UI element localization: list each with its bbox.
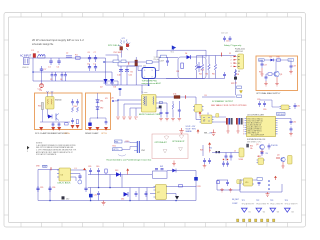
svg-text:U4 CONTROLLER: U4 CONTROLLER — [247, 114, 264, 116]
ground packs 2 (red) — [236, 125, 239, 134]
transistor Q2 — [56, 114, 59, 121]
wire earth stub — [41, 74, 43, 84]
resistor R36 dark body — [234, 77, 237, 80]
svg-text:D14: D14 — [121, 199, 124, 201]
diode D3 bridge — [110, 79, 114, 83]
component column K1 — [226, 118, 233, 125]
capacitor CX1 — [49, 58, 52, 65]
diode D15 — [172, 169, 176, 173]
svg-text:OPTO: OPTO — [113, 149, 119, 151]
test point TP3 — [270, 200, 283, 206]
capacitor C10 bulk — [119, 66, 123, 85]
node label left port — [259, 59, 265, 61]
capacitor C49 — [226, 180, 229, 186]
pin stubs left — [245, 119, 278, 134]
capacitor C16 — [223, 72, 226, 79]
capacitor C23 — [71, 99, 74, 106]
svg-text:OPTION A KIT: OPTION A KIT — [155, 141, 168, 144]
svg-text:TP14 C TEST PT: TP14 C TEST PT — [270, 204, 283, 206]
resistor R5 — [208, 64, 210, 70]
svg-text:C35: C35 — [40, 187, 43, 189]
resistor R15 — [72, 107, 74, 112]
capacitor C43 — [135, 191, 138, 197]
svg-text:SPI BUS: SPI BUS — [277, 114, 285, 116]
resistor R4 — [201, 64, 203, 70]
node junction dot — [103, 61, 104, 62]
ground bias 4 (red) — [260, 68, 263, 76]
svg-text:MCU-20PIN SSOP: MCU-20PIN SSOP — [251, 135, 264, 137]
svg-text:D12: D12 — [66, 199, 69, 201]
node label red flag L3 — [83, 168, 86, 170]
wire clamp net — [40, 121, 70, 123]
ground aux1 (red) — [116, 117, 120, 119]
svg-text:TP2: TP2 — [256, 200, 259, 202]
wire rail 12V — [88, 174, 152, 176]
svg-text:RV1 300V: RV1 300V — [114, 52, 123, 54]
resistor R8 — [234, 70, 236, 76]
node label red flag VSB — [208, 142, 211, 152]
probe flag 2 — [256, 208, 265, 213]
capacitor C22 — [58, 122, 61, 127]
node label blue flag — [43, 165, 48, 168]
svg-text:C7: C7 — [94, 52, 96, 54]
wire bias rail — [264, 59, 288, 61]
wire sense loop — [153, 171, 168, 178]
svg-text:U8: U8 — [257, 156, 259, 158]
capacitor CX2 — [57, 58, 60, 65]
capacitor C18 — [265, 74, 268, 81]
ground sec4 (red) — [178, 119, 182, 121]
capacitor C47 — [208, 158, 211, 164]
transistor Q3 below — [260, 145, 265, 150]
svg-text:C15: C15 — [226, 40, 229, 42]
wire mid node — [127, 65, 135, 67]
resistor R17 — [76, 120, 78, 124]
svg-text:Q1: Q1 — [280, 74, 282, 76]
wire up branch — [167, 171, 196, 178]
ground sec1 (red) — [159, 119, 163, 121]
node label blue rows — [186, 126, 197, 133]
ground left of caps (red) — [172, 161, 176, 167]
node junction dots bottom bus — [49, 187, 176, 201]
loop wires — [240, 180, 282, 192]
capacitor C7 — [94, 55, 97, 62]
svg-text:R2: R2 — [131, 72, 133, 74]
ground big (red) — [211, 130, 215, 136]
svg-text:TP3: TP3 — [270, 200, 273, 202]
test point TP2 — [256, 200, 269, 206]
capacitor C21 — [52, 122, 55, 127]
node label box mid — [257, 178, 262, 181]
svg-text:OPT A: OPT A — [64, 132, 70, 135]
capacitor C4b — [64, 72, 67, 81]
resistor R16 — [77, 107, 79, 112]
ground row 2 (red flags) — [88, 127, 108, 131]
resistor R27 yellow — [237, 180, 241, 184]
svg-text:C6: C6 — [88, 52, 90, 54]
svg-text:20 W universal input supply E: 20 W universal input supply EP-xx rev 1.… — [32, 38, 84, 42]
svg-text:1k: 1k — [209, 150, 211, 152]
node label VAUX blue flag — [119, 88, 122, 96]
capacitor C33 right — [290, 127, 293, 133]
node junction red tick — [185, 95, 187, 99]
svg-text:3: 3 — [231, 63, 232, 65]
ghost flag 2 — [179, 148, 183, 152]
node junction red tick — [128, 62, 130, 65]
ground earth PE (red) — [39, 84, 43, 88]
diode D16 on loop top — [187, 55, 191, 59]
capacitor CY1 — [40, 66, 43, 74]
wire IC to caps — [278, 118, 292, 121]
op-amp U1 switcher IC (blue rounded square) — [142, 68, 156, 79]
svg-text:G1: G1 — [248, 212, 250, 214]
svg-text:LINE IN: LINE IN — [22, 67, 29, 69]
svg-text:R16: R16 — [74, 106, 77, 108]
wire U3 to resistor packs — [214, 116, 227, 118]
wire DC+ to bulk caps — [112, 55, 142, 66]
svg-text:D9: D9 — [205, 95, 207, 97]
wire snubber loop (rounded) — [178, 57, 206, 79]
capacitor C14 — [223, 36, 226, 42]
diode D2 bridge — [104, 79, 108, 83]
probe flag 1 — [242, 208, 251, 213]
node label red dots — [223, 159, 228, 160]
capacitor C40 — [97, 168, 100, 175]
wire step to bus — [85, 170, 87, 186]
resistor R25 — [179, 185, 183, 187]
value label grey top right — [154, 57, 160, 61]
capacitor C38 — [84, 186, 87, 192]
node junction red tick — [221, 53, 223, 57]
wire U3 up feed — [207, 113, 209, 115]
ground below (red) — [260, 150, 264, 155]
ground sec5 big (red) — [179, 128, 183, 133]
clamp box 1 — [35, 93, 83, 130]
wire fb — [122, 147, 134, 150]
svg-text:5V STANDBY OUTPUT: 5V STANDBY OUTPUT — [212, 100, 234, 103]
node label red flag — [199, 111, 202, 116]
resistor R14 — [65, 123, 69, 125]
capacitor C32 right — [290, 119, 293, 125]
ground bias 2 (red) — [275, 77, 279, 86]
ground right IC (red) — [289, 133, 293, 137]
node label red pair — [250, 146, 253, 150]
svg-text:C21 C22: C21 C22 — [221, 33, 228, 35]
svg-text:PGOOD: PGOOD — [271, 145, 278, 147]
resistor R34 dark body — [246, 144, 249, 148]
wire DC bus bottom — [106, 81, 119, 85]
vertical links — [90, 175, 92, 188]
wire aux windings left — [118, 99, 142, 101]
node label box a — [237, 86, 242, 89]
ground lower loop 2 (red) — [229, 188, 233, 192]
svg-text:GND1 COMP EN D6: GND1 COMP EN D6 — [247, 130, 261, 132]
svg-text:FB_NET: FB_NET — [232, 199, 240, 201]
capacitor C28 — [166, 110, 169, 118]
pin arrows (red) — [234, 56, 238, 67]
capacitor C4 — [61, 72, 64, 81]
svg-text:SW: SW — [160, 166, 163, 168]
ground bias 3 (red) — [289, 70, 293, 74]
diode D10 — [88, 123, 91, 126]
capacitor C19 — [290, 61, 293, 70]
svg-text:G4: G4 — [291, 212, 293, 214]
svg-text:VDD2 OSC2 REF1 D1: VDD2 OSC2 REF1 D1 — [247, 120, 263, 122]
ground Q4 (red) — [281, 162, 284, 168]
svg-text:VR1: VR1 — [100, 101, 104, 103]
svg-text:TP1: TP1 — [242, 200, 245, 202]
svg-text:CN2: CN2 — [141, 150, 145, 152]
svg-text:J2: J2 — [234, 150, 236, 152]
resistor R1 — [76, 57, 81, 60]
svg-text:FB1: FB1 — [115, 141, 118, 143]
ground mid caps (red) — [203, 164, 207, 168]
ground sec3 (red) — [171, 119, 175, 121]
resistor R33 dark body — [218, 151, 220, 153]
node label small blue box — [159, 102, 162, 104]
diode D8 zener — [96, 100, 99, 103]
resistor R19 yellow body — [281, 105, 289, 110]
transistor Q1 — [274, 71, 279, 76]
transistor Q4 — [281, 157, 285, 161]
svg-text:C4: C4 — [60, 79, 62, 81]
node label box above U1 — [146, 61, 152, 64]
wire into U3 — [196, 112, 200, 120]
resistor R6 — [214, 64, 216, 70]
svg-text:L3: L3 — [75, 168, 77, 170]
IC U6 buck body — [59, 168, 71, 181]
svg-text:FOR LAYOUT GUIDANCE.: FOR LAYOUT GUIDANCE. — [36, 153, 57, 156]
IC U9 yellow vertical — [288, 156, 292, 165]
IC U2 small regulator — [195, 105, 203, 113]
svg-text:LNK-TL BUCK: LNK-TL BUCK — [58, 183, 72, 185]
svg-text:R12: R12 — [259, 72, 262, 74]
loop right — [168, 187, 196, 201]
capacitor C6 — [88, 55, 91, 62]
inductor L2 common-mode choke — [66, 56, 72, 58]
svg-text:Q4: Q4 — [277, 154, 279, 156]
arc wire — [118, 155, 126, 157]
node label box (blue) — [161, 55, 167, 58]
IC U4 body — [247, 117, 276, 137]
wire center — [97, 93, 99, 118]
svg-text:C30: C30 — [263, 109, 266, 111]
component column K2 — [236, 118, 243, 125]
wire secondary out mid — [156, 103, 167, 110]
svg-text:Q3: Q3 — [256, 144, 258, 146]
node label box TP2 — [121, 60, 126, 63]
ground sec2 (red) — [165, 119, 169, 121]
capacitor C58 above U8 — [261, 151, 264, 156]
svg-text:SEE SHEET 2 OF 2: SEE SHEET 2 OF 2 — [247, 141, 261, 143]
wire bottom bus — [38, 200, 196, 202]
svg-text:D4: D4 — [185, 53, 187, 55]
svg-text:D6: D6 — [270, 57, 272, 59]
diode D6 — [271, 59, 274, 62]
wire connector feed — [224, 56, 226, 73]
wire N rail — [33, 58, 118, 81]
wire stub — [275, 180, 277, 192]
capacitor C24 — [76, 99, 79, 106]
wire IC out — [73, 169, 87, 171]
ground lower loop 1 (red) — [220, 188, 224, 192]
wire L rail — [29, 57, 104, 59]
svg-text:AC INPUT: AC INPUT — [20, 55, 32, 58]
svg-text:R10: R10 — [277, 57, 280, 59]
opto U5 connector bars — [137, 141, 139, 153]
IC U7 body — [156, 185, 167, 200]
connector J2 body — [239, 148, 244, 157]
diode D13 — [116, 172, 121, 177]
capacitor C48 blue box — [217, 181, 220, 184]
svg-text:Recommended to use PI-2000 des: Recommended to use PI-2000 design in low… — [107, 159, 152, 162]
capacitor C36 — [48, 186, 51, 192]
spark rays — [119, 39, 131, 50]
wire feeds — [147, 189, 154, 191]
ground aux3 (red) — [128, 117, 132, 119]
svg-text:SB2040: SB2040 — [55, 100, 61, 102]
wire primary in — [141, 85, 143, 94]
capacitor C35 — [36, 186, 39, 192]
svg-text:C36: C36 — [52, 187, 55, 189]
ground bias 1 (red) — [264, 81, 268, 86]
IC U10 shunt ref yellow — [244, 178, 253, 186]
svg-text:C41: C41 — [94, 195, 97, 197]
svg-text:SUPERVISOR BLOCK: SUPERVISOR BLOCK — [247, 139, 266, 141]
wire bridge arms — [104, 58, 106, 85]
ground feedback (red) — [266, 192, 270, 196]
capacitor C53 mark — [155, 169, 158, 170]
ground packs 1 (red) — [226, 125, 229, 134]
bias box — [256, 56, 298, 91]
wire mid rail — [33, 71, 104, 73]
capacitor C46 — [203, 158, 206, 164]
capacitor C54 mark — [161, 169, 164, 170]
svg-text:1: 1 — [231, 56, 232, 58]
wire center drop — [275, 61, 277, 71]
connector J0 body — [24, 58, 30, 65]
resistor R37 — [195, 64, 197, 70]
wire feedback column — [202, 145, 204, 156]
wire source — [156, 57, 160, 70]
svg-text:TP12 A TEST PT: TP12 A TEST PT — [242, 203, 255, 206]
ground aux4 (red) — [134, 117, 138, 119]
fuse F2 (red) — [126, 44, 129, 47]
value label block (dark) — [235, 49, 245, 53]
node label blue tiny rows — [232, 199, 240, 205]
wire bank bottom rail — [166, 78, 225, 80]
node label red flag top — [197, 129, 200, 133]
IC U3 shunt regulator — [201, 115, 212, 124]
capacitor C11 bulk — [125, 66, 129, 85]
capacitor C41 blue body — [89, 194, 93, 198]
node junction — [97, 118, 98, 119]
option box (light red) — [152, 134, 188, 159]
wire input rail — [38, 169, 59, 171]
capacitor C34 below — [268, 144, 271, 150]
wire varistor stub — [120, 50, 122, 57]
svg-text:2.2R: 2.2R — [197, 186, 202, 188]
svg-text:C19: C19 — [293, 66, 296, 68]
svg-text:G3: G3 — [277, 212, 279, 214]
capacitor C17 — [261, 60, 264, 68]
capacitor C52 — [230, 153, 233, 161]
svg-text:U10: U10 — [245, 182, 248, 184]
wire secondary out top — [156, 97, 196, 105]
IC U8 yellow — [258, 158, 264, 165]
capacitor C50 — [258, 180, 261, 186]
svg-text:C32: C32 — [293, 122, 296, 124]
svg-text:C39: C39 — [88, 166, 91, 168]
node label red flag — [274, 176, 277, 180]
pin name smudge — [247, 117, 264, 136]
resistor R10 — [277, 59, 281, 61]
wire link — [260, 100, 280, 107]
svg-text:C40: C40 — [96, 166, 99, 168]
capacitor C26 — [105, 120, 108, 125]
resistor R11 — [268, 73, 272, 75]
svg-text:G2: G2 — [263, 212, 265, 214]
fuse F1 — [33, 54, 36, 58]
wire down to secondary — [235, 69, 237, 95]
value label red above caps — [88, 52, 96, 54]
wire top rail to connector — [197, 55, 237, 57]
capacitor C27 — [160, 110, 163, 118]
node label box TP1 — [113, 60, 119, 63]
ground aux2 (red) — [122, 117, 126, 119]
capacitor C30 — [263, 101, 266, 107]
capacitor C25 — [71, 118, 74, 124]
test point TP1 — [242, 200, 255, 206]
capacitor C3b — [54, 72, 57, 81]
resistor R24 — [105, 169, 107, 173]
svg-text:www.powerint.com AN-47: www.powerint.com AN-47 — [142, 82, 161, 85]
transistor Q6 small — [78, 180, 82, 184]
capacitor C42 — [97, 191, 100, 201]
svg-text:OPTIONAL BIAS SUPPLY: OPTIONAL BIAS SUPPLY — [256, 92, 281, 95]
ghost flag 1 — [163, 150, 167, 154]
capacitor C37 — [78, 174, 81, 181]
resistor R30 dark body right of T1 — [159, 106, 162, 109]
snubber loop wires — [159, 56, 178, 58]
wire rail 5V — [88, 187, 155, 189]
svg-text:VIN: VIN — [36, 166, 40, 168]
pin number marks red left — [243, 118, 244, 135]
svg-text:R34: R34 — [250, 146, 253, 148]
ground bottom (red) — [102, 201, 106, 206]
node junction dots — [117, 99, 118, 100]
svg-text:TP15 D TEST PT: TP15 D TEST PT — [285, 204, 298, 206]
diode D12 dark — [62, 196, 65, 199]
svg-text:NTC 10D-9: NTC 10D-9 — [108, 45, 120, 47]
svg-text:OPTION B KIT: OPTION B KIT — [172, 141, 185, 143]
wire pins up — [47, 92, 49, 97]
svg-text:VR2: VR2 — [100, 108, 104, 110]
svg-text:TP13 B TEST PT: TP13 B TEST PT — [256, 204, 269, 206]
capacitor C9 — [94, 64, 97, 71]
capacitor C55 — [222, 161, 225, 167]
wire top feed — [156, 50, 158, 57]
svg-text:1.2k: 1.2k — [234, 83, 237, 85]
title text block — [32, 38, 84, 46]
svg-text:R26: R26 — [200, 150, 203, 152]
capacitor C45 blue body — [194, 177, 198, 181]
mounting pad row — [237, 219, 275, 222]
transformer T2 aux body — [46, 97, 54, 110]
wire standby rail — [212, 152, 239, 154]
node label box b — [237, 95, 242, 98]
svg-text:SENSE: SENSE — [186, 131, 193, 133]
